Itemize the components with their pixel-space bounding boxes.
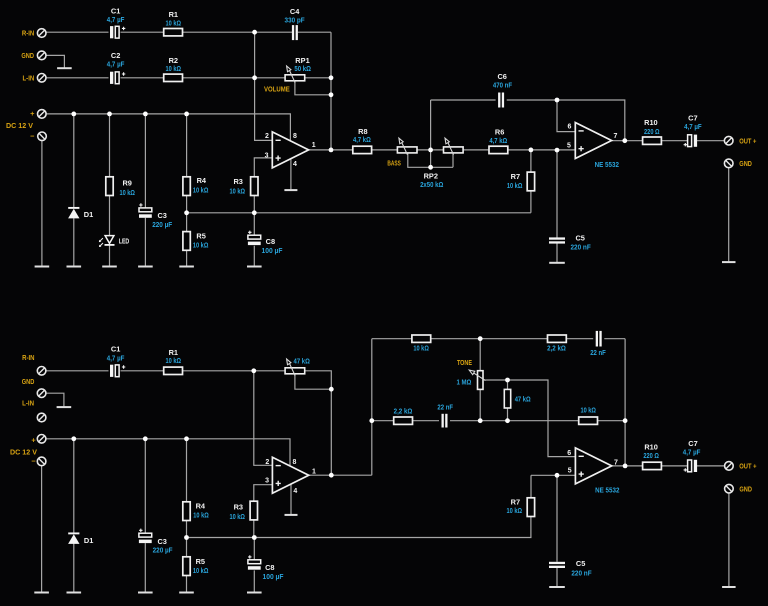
None <box>549 586 565 588</box>
wire P1 right to column <box>305 371 332 475</box>
svg-text:C1: C1 <box>111 6 120 15</box>
resistor 10k tone bottom <box>579 417 598 424</box>
wire bias bus bottom <box>187 517 531 538</box>
svg-text:220 Ω: 220 Ω <box>643 451 659 460</box>
svg-text:2,2 kΩ: 2,2 kΩ <box>547 344 566 353</box>
junction bus R4 bottom <box>184 535 189 540</box>
terminal R-IN <box>37 29 46 38</box>
svg-text:4,7 µF: 4,7 µF <box>683 448 701 457</box>
resistor R7 bottom <box>527 498 534 517</box>
svg-text:GND: GND <box>22 377 35 386</box>
svg-text:R7: R7 <box>511 172 520 181</box>
capacitor C6 <box>498 93 504 108</box>
svg-text:220 nF: 220 nF <box>571 568 592 577</box>
svg-text:R9: R9 <box>122 179 131 188</box>
svg-text:470 nF: 470 nF <box>493 80 513 89</box>
svg-text:330 pF: 330 pF <box>285 15 306 24</box>
wire R1 to P1 bottom <box>183 370 286 372</box>
op-amp U1B <box>272 457 308 493</box>
wire U1A pin4 to ground <box>290 159 292 189</box>
svg-text:C3: C3 <box>157 211 166 220</box>
svg-text:R4: R4 <box>196 501 206 510</box>
wire R2 to RP1 <box>183 77 286 79</box>
svg-text:47 kΩ: 47 kΩ <box>515 394 531 403</box>
wire C5 branch <box>556 150 558 262</box>
svg-text:10 kΩ: 10 kΩ <box>580 406 596 415</box>
wire 1M wiper to pin6 <box>485 380 575 457</box>
wire 1M pot column <box>479 339 481 421</box>
svg-text:4,7 µF: 4,7 µF <box>107 353 125 362</box>
None <box>285 514 298 516</box>
terminal L-IN <box>37 74 46 83</box>
junction bus R3 <box>252 210 257 215</box>
junction tone left <box>369 418 374 423</box>
svg-text:2x50 kΩ: 2x50 kΩ <box>420 180 443 189</box>
wire pin6 net <box>557 100 575 132</box>
svg-text:10 kΩ: 10 kΩ <box>166 356 182 365</box>
capacitor C8 <box>248 231 261 246</box>
capacitor C5 bottom <box>549 562 565 568</box>
svg-text:BASS: BASS <box>387 159 400 168</box>
op-amp U2B <box>575 448 611 484</box>
svg-text:2,2 kΩ: 2,2 kΩ <box>394 407 413 416</box>
wire bias bus <box>187 212 531 214</box>
wire U1B pin3 to R3 <box>254 485 275 502</box>
svg-text:220 µF: 220 µF <box>153 546 173 555</box>
junction rail D1 bottom <box>71 436 76 441</box>
wire C1 to R1 bottom <box>121 370 164 372</box>
svg-text:1: 1 <box>312 142 316 149</box>
wire D1 branch bottom <box>73 439 75 592</box>
wire C8 branch <box>253 213 255 266</box>
svg-text:L-IN: L-IN <box>22 399 34 408</box>
wire tone left column <box>371 339 373 476</box>
svg-text:TONE: TONE <box>457 358 472 367</box>
junction RP1 right <box>329 75 334 80</box>
terminal R-IN bottom <box>37 367 46 376</box>
svg-text:R5: R5 <box>196 557 205 566</box>
ground D1 bottom <box>67 592 82 594</box>
wire R4 R5 branch bottom <box>186 439 188 592</box>
wire DC- down <box>41 141 43 266</box>
svg-text:R4: R4 <box>197 176 207 185</box>
resistor 2.2k tone bottom <box>394 417 413 424</box>
wire C4 right to feedback column <box>298 31 331 33</box>
junction U2A output <box>622 138 627 143</box>
svg-text:1: 1 <box>312 468 316 475</box>
None <box>284 189 297 191</box>
resistor 10k tone top-left <box>412 335 431 342</box>
ground DC- <box>35 266 50 268</box>
ground DC- bottom <box>34 592 49 594</box>
None <box>549 262 565 264</box>
svg-text:−: − <box>30 132 35 141</box>
capacitor C8 bottom <box>248 555 261 570</box>
terminal OUT GND bottom <box>725 484 734 493</box>
resistor R5 <box>183 232 190 251</box>
wire R7 top bottom-ckt <box>530 475 532 498</box>
wire R7 top branch <box>530 150 532 213</box>
svg-text:C8: C8 <box>265 563 274 572</box>
svg-text:D1: D1 <box>84 210 93 219</box>
terminal L-IN bottom <box>37 413 46 422</box>
svg-text:4,7 µF: 4,7 µF <box>107 60 125 69</box>
svg-text:10 kΩ: 10 kΩ <box>507 506 523 515</box>
junction rail D1 <box>71 112 76 117</box>
svg-text:10 kΩ: 10 kΩ <box>193 185 209 194</box>
svg-text:2: 2 <box>265 459 269 466</box>
svg-text:−: − <box>31 457 36 466</box>
diode D1 bottom <box>68 533 79 544</box>
wire RP2b to R6 <box>462 149 489 151</box>
capacitor C7 bottom <box>684 460 698 472</box>
ground C8 <box>247 266 262 268</box>
LED <box>99 236 115 247</box>
junction rail C3 <box>143 112 148 117</box>
resistor R8 <box>353 146 372 153</box>
svg-text:10 kΩ: 10 kΩ <box>166 19 182 28</box>
wire input column to U1B pin2 <box>254 371 275 466</box>
svg-text:D1: D1 <box>84 536 93 545</box>
terminal DC- bottom <box>37 457 46 466</box>
svg-text:R-IN: R-IN <box>22 29 34 38</box>
wire feedback column x=331 <box>330 32 332 150</box>
junction RP1 wiper <box>329 92 334 97</box>
svg-text:5: 5 <box>568 467 572 474</box>
wire +12V rail to U1A pin 8 <box>46 114 290 140</box>
svg-text:22 nF: 22 nF <box>437 402 453 411</box>
wire RP1 right terminal to column <box>305 77 331 79</box>
wire feedback over U2A <box>557 100 625 141</box>
wire D1 branch <box>73 114 75 266</box>
wire tone right column <box>624 339 626 466</box>
ground C3 bottom <box>138 592 153 594</box>
wire DC- down bottom <box>41 466 43 592</box>
resistor R10 <box>643 137 662 144</box>
ground C8 bottom <box>247 592 262 594</box>
svg-text:3: 3 <box>265 153 269 160</box>
junction U2A pin5 <box>555 148 560 153</box>
svg-text:10 kΩ: 10 kΩ <box>230 187 246 196</box>
junction 47k top <box>505 378 510 383</box>
ground R5 bottom <box>179 592 194 594</box>
junction C6 signal <box>428 148 433 153</box>
svg-text:1 MΩ: 1 MΩ <box>456 378 471 387</box>
resistor R7 <box>527 172 534 191</box>
capacitor C2 <box>110 72 125 84</box>
wire U1A output to R8 <box>309 149 353 151</box>
svg-text:50 kΩ: 50 kΩ <box>294 64 311 73</box>
wire C5 branch bottom <box>556 475 558 586</box>
ground D1 <box>67 266 82 268</box>
wire RP2a to RP2b <box>417 149 445 151</box>
svg-text:5: 5 <box>567 143 571 150</box>
svg-text:10 kΩ: 10 kΩ <box>119 188 135 197</box>
wire R1 to C4, node A junction <box>183 31 293 33</box>
svg-text:C5: C5 <box>576 559 585 568</box>
terminal DC+ bottom <box>37 435 46 444</box>
wire U1A pin3 to R3 <box>254 158 275 177</box>
junction R6 R7 <box>529 148 534 153</box>
wire C3 branch <box>144 114 146 266</box>
terminal GND input bottom <box>37 389 46 398</box>
wire C6 left <box>431 99 496 101</box>
wire C7 to OUT+ bottom <box>697 465 725 467</box>
capacitor C1 bottom <box>110 365 125 377</box>
wire L-IN to C2 <box>46 77 109 79</box>
wire R3 to bus bottom <box>253 520 255 538</box>
svg-text:GND: GND <box>739 484 752 493</box>
svg-text:10 kΩ: 10 kΩ <box>193 566 209 575</box>
potentiometer P2 1M <box>474 371 486 390</box>
svg-text:NE 5532: NE 5532 <box>595 160 619 169</box>
junction U1A output <box>329 148 334 153</box>
svg-text:4,7 µF: 4,7 µF <box>107 15 125 24</box>
junction P1 wiper <box>329 387 334 392</box>
resistor R1 bottom <box>164 367 183 374</box>
wire R4 R5 branch <box>186 114 188 266</box>
svg-text:100 µF: 100 µF <box>263 572 284 581</box>
capacitor C3 <box>139 203 152 218</box>
junction bus R4 <box>184 210 189 215</box>
svg-text:22 nF: 22 nF <box>590 348 606 357</box>
terminal GND input <box>37 51 46 60</box>
svg-text:8: 8 <box>293 133 297 140</box>
junction rail R9 <box>107 112 112 117</box>
svg-text:100 µF: 100 µF <box>262 246 283 255</box>
resistor R3 bottom <box>250 501 257 520</box>
svg-text:VOLUME: VOLUME <box>264 84 290 93</box>
svg-text:R3: R3 <box>234 502 243 511</box>
terminal DC+ <box>38 110 47 119</box>
wire +12V rail bottom <box>46 439 290 465</box>
svg-text:R6: R6 <box>495 127 504 136</box>
svg-text:6: 6 <box>567 450 571 457</box>
wire tone bottom row <box>372 420 625 422</box>
svg-text:4,7 µF: 4,7 µF <box>684 122 702 131</box>
wire U1B pin4 ground <box>290 484 292 514</box>
None <box>57 406 72 408</box>
wire R-IN to C1 <box>46 31 109 33</box>
svg-text:6: 6 <box>567 124 571 131</box>
svg-text:2: 2 <box>265 133 269 140</box>
wire R-IN to C1 bottom <box>46 370 109 372</box>
resistor 2.2k tone top <box>548 335 567 342</box>
resistor R10 bottom <box>643 462 662 469</box>
capacitor C4 <box>292 25 298 40</box>
wire R8 to RP2a <box>372 149 398 151</box>
junction rail R4 bottom <box>184 436 189 441</box>
svg-text:OUT +: OUT + <box>739 462 757 471</box>
wire pin5 net bottom <box>531 474 575 476</box>
junction L-IN bus <box>252 75 257 80</box>
wire U1B output right <box>309 474 372 476</box>
op-amp U1A <box>272 132 308 168</box>
wire RP1 wiper to column <box>295 81 331 95</box>
svg-text:10 kΩ: 10 kΩ <box>507 181 523 190</box>
potentiometer RP1 <box>285 70 305 82</box>
svg-text:+: + <box>30 109 35 118</box>
wire C8 branch bottom <box>253 538 255 592</box>
wire C6 drop to wiper bus <box>430 100 432 167</box>
svg-text:220 µF: 220 µF <box>152 220 172 229</box>
terminal OUT+ <box>724 136 733 145</box>
wire tone top row <box>372 338 625 340</box>
junction U2B pin5 <box>555 473 560 478</box>
capacitor 22nF tone bottom <box>442 414 448 428</box>
svg-text:220 Ω: 220 Ω <box>644 127 660 136</box>
resistor R1 <box>164 29 183 36</box>
svg-text:DC 12 V: DC 12 V <box>10 448 37 457</box>
wire C3 branch bottom <box>144 439 146 592</box>
capacitor C3 bottom <box>139 529 152 544</box>
svg-text:10 kΩ: 10 kΩ <box>166 64 182 73</box>
wire GND stub bottom <box>46 393 64 406</box>
None <box>722 261 736 263</box>
ground LED <box>102 266 117 268</box>
resistor R3 <box>251 177 258 196</box>
svg-text:10 kΩ: 10 kΩ <box>193 240 209 249</box>
terminal OUT+ bottom <box>725 462 734 471</box>
svg-text:R5: R5 <box>196 232 205 241</box>
junction R1 P1 <box>251 368 256 373</box>
resistor 47k tone <box>504 389 510 408</box>
junction tone top <box>478 336 483 341</box>
op-amp U2A <box>575 123 611 159</box>
wire R3 to bus <box>253 195 255 212</box>
None <box>722 586 736 588</box>
wire R6 to U2A pin5 <box>507 149 575 151</box>
svg-text:3: 3 <box>265 477 269 484</box>
wire RP2 wiper bus <box>408 153 453 167</box>
svg-text:C8: C8 <box>266 237 275 246</box>
svg-text:7: 7 <box>613 133 617 140</box>
svg-text:LED: LED <box>119 236 130 245</box>
potentiometer RP2 gang b <box>444 142 464 154</box>
junction rail C3 bottom <box>143 436 148 441</box>
wire 47k column <box>507 380 509 421</box>
resistor R4 <box>183 177 190 196</box>
capacitor C1 <box>110 26 125 38</box>
svg-text:R10: R10 <box>644 118 658 127</box>
svg-text:+: + <box>31 435 36 444</box>
wire R9 LED branch <box>109 114 111 266</box>
junction wiper bus <box>428 165 433 170</box>
svg-text:4,7 kΩ: 4,7 kΩ <box>353 135 371 144</box>
svg-text:R-IN: R-IN <box>22 353 34 362</box>
potentiometer RP2 gang a <box>397 142 417 154</box>
svg-text:OUT +: OUT + <box>739 136 757 145</box>
potentiometer P1 47k <box>285 363 305 375</box>
junction feedback C6 <box>555 98 560 103</box>
wire C7 to OUT+ <box>697 140 724 142</box>
junction tone right <box>623 418 628 423</box>
svg-text:NE 5532: NE 5532 <box>595 486 619 495</box>
wire R10 to C7 bottom <box>661 465 687 467</box>
svg-text:10 kΩ: 10 kΩ <box>193 511 209 520</box>
svg-text:GND: GND <box>21 51 34 60</box>
svg-text:C1: C1 <box>111 345 120 354</box>
wire U2A output to R10 <box>612 140 643 142</box>
junction rail R4 <box>184 112 189 117</box>
capacitor C5 <box>549 237 565 243</box>
junction node A <box>252 30 257 35</box>
resistor R4 bottom <box>183 502 190 521</box>
svg-text:47 kΩ: 47 kΩ <box>294 356 310 365</box>
junction U1B output <box>329 473 334 478</box>
capacitor 22nF tone top <box>596 331 602 347</box>
svg-text:4: 4 <box>293 488 297 495</box>
wire OUT GND down <box>728 168 730 262</box>
resistor R5 bottom <box>183 557 190 576</box>
None <box>57 67 72 69</box>
junction bus R3 bottom <box>252 535 257 540</box>
svg-text:GND: GND <box>739 159 752 168</box>
svg-text:L-IN: L-IN <box>22 73 34 82</box>
capacitor C7 <box>684 135 698 147</box>
resistor R9 <box>106 177 113 196</box>
diode D1 <box>68 208 79 219</box>
svg-text:220 nF: 220 nF <box>570 242 591 251</box>
junction U2B output <box>623 464 628 469</box>
wire R10 to C7 <box>661 140 687 142</box>
svg-text:4: 4 <box>293 161 297 168</box>
svg-text:C7: C7 <box>688 113 697 122</box>
wire OUT GND down bottom <box>728 493 730 586</box>
junction 47k bottom <box>505 418 510 423</box>
svg-text:R3: R3 <box>233 177 242 186</box>
terminal DC- <box>38 132 47 141</box>
junction 1M bottom <box>478 418 483 423</box>
ground R5 <box>179 266 194 268</box>
wire GND input stub <box>46 55 65 67</box>
wire U2B output to R10 <box>612 465 643 467</box>
ground C3 <box>138 266 153 268</box>
svg-text:DC 12 V: DC 12 V <box>6 121 33 130</box>
wire input bus down to op-amp U1A pin 2 <box>255 32 275 140</box>
resistor R2 <box>164 74 183 81</box>
wire P1 wiper <box>295 374 331 389</box>
svg-text:7: 7 <box>614 460 618 467</box>
svg-text:10 kΩ: 10 kΩ <box>413 344 429 353</box>
svg-text:4,7 kΩ: 4,7 kΩ <box>489 136 507 145</box>
wire C1 to R1 <box>121 31 164 33</box>
wire C2 to R2 <box>121 77 164 79</box>
terminal OUT GND <box>724 159 733 168</box>
svg-text:10 kΩ: 10 kΩ <box>229 512 245 521</box>
wire C6 right <box>507 99 557 101</box>
resistor R6 <box>489 146 508 153</box>
svg-text:8: 8 <box>292 459 296 466</box>
